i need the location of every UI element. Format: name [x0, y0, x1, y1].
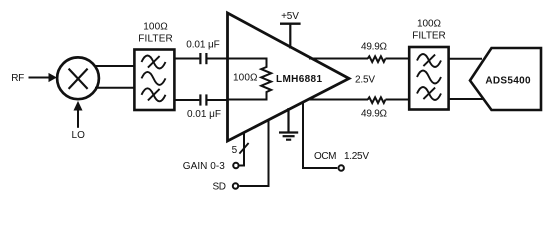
wire mixer to filter top	[95, 65, 137, 67]
power +5V bar	[280, 23, 301, 25]
ADC U2 ADS5400 outline	[470, 48, 541, 110]
svg-text:5: 5	[232, 145, 238, 156]
svg-text:100Ω: 100Ω	[417, 19, 442, 30]
filter FL2 bandpass symbol middle (wave)	[417, 71, 441, 84]
filter FL2 box	[409, 47, 448, 110]
wire filter2 to ADC top	[448, 58, 483, 60]
resistor R3 zigzag	[368, 97, 386, 103]
capacitor C2 plates	[199, 94, 201, 105]
wire mixer to filter bottom	[95, 87, 137, 89]
svg-text:OCM: OCM	[314, 151, 337, 162]
wire R3 to filter2	[386, 99, 410, 101]
bus slash GAIN	[239, 143, 248, 154]
capacitor C1 plates	[199, 53, 201, 64]
svg-text:ADS5400: ADS5400	[485, 76, 531, 87]
svg-text:FILTER: FILTER	[138, 34, 173, 45]
mixer M1 circle	[57, 57, 99, 99]
filter FL2 bandpass symbol bottom (slashed wave)	[417, 87, 441, 100]
resistor R1 100ohm internal (vertical zigzag)	[261, 58, 271, 101]
svg-text:0.01 μF: 0.01 μF	[186, 39, 220, 50]
svg-text:49.9Ω: 49.9Ω	[361, 108, 388, 119]
terminal OCM circle	[339, 165, 344, 170]
svg-text:2.5V: 2.5V	[355, 75, 375, 86]
svg-text:1.25V: 1.25V	[344, 151, 369, 162]
ground	[287, 108, 289, 132]
svg-text:SD: SD	[213, 182, 227, 193]
svg-text:LMH6881: LMH6881	[276, 74, 322, 85]
wire filter2 to ADC bottom	[448, 98, 486, 100]
terminal GAIN circle	[233, 163, 238, 168]
filter FL1 bandpass symbol bottom (slashed wave)	[142, 88, 166, 101]
filter FL1 bandpass symbol top (slashed wave)	[142, 56, 166, 69]
arrowhead RF	[49, 73, 57, 82]
wire GAIN pin	[239, 132, 244, 166]
filter FL2 bandpass symbol top (slashed wave)	[417, 54, 441, 67]
terminal SD circle	[233, 183, 238, 188]
svg-text:GAIN 0-3: GAIN 0-3	[183, 161, 225, 172]
svg-text:0.01 μF: 0.01 μF	[187, 109, 221, 120]
wire amp out top	[309, 58, 368, 60]
wire +5V to amp	[289, 24, 291, 49]
svg-text:100Ω: 100Ω	[143, 22, 168, 33]
svg-text:100Ω: 100Ω	[233, 73, 258, 84]
svg-text:LO: LO	[71, 130, 85, 141]
wire C2 to amp	[208, 99, 229, 101]
mixer M1 X	[69, 69, 88, 89]
wire filter to C1	[174, 58, 199, 60]
wire R2 to filter2	[386, 58, 410, 60]
wire LO input	[77, 108, 79, 128]
arrowhead LO	[74, 101, 83, 111]
resistor R2 zigzag	[368, 56, 386, 62]
filter FL1 box	[134, 50, 174, 111]
filter FL1 bandpass symbol middle (wave)	[142, 72, 166, 85]
wire internal bottom rail	[227, 99, 267, 101]
wire internal top rail	[227, 58, 267, 60]
wire RF input	[29, 77, 50, 79]
svg-text:+5V: +5V	[281, 11, 299, 22]
svg-text:FILTER: FILTER	[412, 31, 446, 42]
wire OCM pin	[303, 102, 337, 169]
svg-text:49.9Ω: 49.9Ω	[361, 42, 388, 53]
wire amp out bottom	[307, 99, 368, 101]
svg-text:RF: RF	[11, 73, 24, 84]
wire SD pin	[239, 119, 268, 186]
wire filter to C2	[174, 99, 199, 101]
wire C1 to amp	[208, 58, 229, 60]
op-amp U1 LMH6881 triangle	[228, 13, 350, 141]
